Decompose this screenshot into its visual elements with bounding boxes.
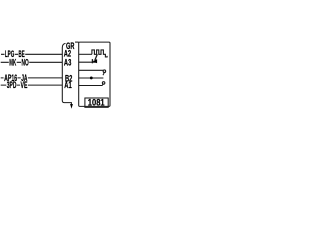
svg-text:VE: VE [21,80,28,90]
ground arrow down [70,104,73,109]
switch contact circle bottom [102,82,105,85]
wire pin B2 inside row switch common [79,77,104,79]
wire pin A3 inside row to diode [79,61,97,63]
wire pin A2 inside row [79,53,92,55]
svg-text:MK: MK [9,57,16,67]
svg-text:A3: A3 [64,58,71,68]
wire LPG-BE row 1 segments [1,53,62,55]
component number box 1081 [85,98,108,107]
wire MK-NO row 2 segments [1,61,63,63]
wire GR vertical run with top arc, bottom run [62,43,71,105]
svg-text:A1: A1 [64,80,71,90]
svg-text:NO: NO [22,57,29,67]
wire diode tap diagonal [95,54,97,60]
wire inside-only row to switch contact [79,69,104,71]
diode cathode bar [91,59,93,63]
svg-text:1081: 1081 [88,97,105,107]
resistor heating element [92,50,107,57]
switch contact tail bottom [102,84,103,86]
switch contact circle top [103,70,106,73]
junction dot node B2 [90,76,93,79]
wire 3PD-VE row 4 segments [1,84,63,86]
diode D triangle [93,59,98,63]
svg-text:3PD: 3PD [7,80,17,90]
wire GR dash into box corner [75,41,79,43]
component box U 1081 outline [79,42,110,106]
switch arm tail from top contact [103,72,104,75]
wire AP16-JA row 3 segments [1,77,63,79]
wire pin A1 inside row [79,85,103,87]
